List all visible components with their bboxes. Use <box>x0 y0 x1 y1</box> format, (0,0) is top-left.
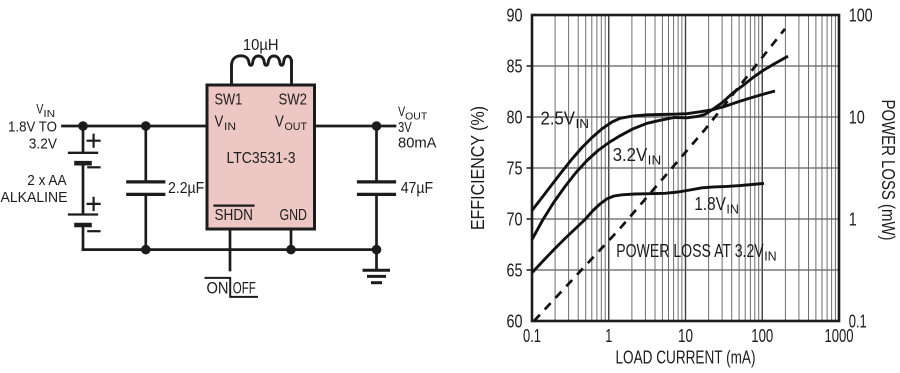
inductor L1 legs <box>232 62 292 86</box>
wire battery drop <box>82 126 85 152</box>
chart decade vertical gridlines <box>609 15 763 321</box>
wire GND pin <box>290 229 293 250</box>
svg-text:47µF: 47µF <box>401 180 434 197</box>
wire between cells <box>82 165 85 215</box>
battery cell1 minus sign <box>88 166 99 168</box>
curve efficiency 1.8VIN <box>532 183 764 272</box>
svg-text:85: 85 <box>507 56 523 77</box>
curve power loss dashed 3.2VIN <box>534 29 785 321</box>
junction C2-top <box>372 121 382 131</box>
svg-text:1.8V: 1.8V <box>694 194 726 214</box>
svg-text:IN: IN <box>764 249 777 264</box>
svg-text:EFFICIENCY (%): EFFICIENCY (%) <box>467 106 488 230</box>
wire VIN rail (top) <box>63 125 208 128</box>
svg-text:10: 10 <box>849 107 865 128</box>
svg-text:75: 75 <box>507 158 523 179</box>
wire VOUT <box>315 125 396 128</box>
battery label <box>1 172 68 206</box>
svg-text:100: 100 <box>849 5 873 26</box>
y axis left tick labels <box>507 5 523 332</box>
svg-text:70: 70 <box>507 209 523 230</box>
svg-text:1000: 1000 <box>825 325 854 346</box>
svg-text:IN: IN <box>576 116 590 131</box>
svg-text:100: 100 <box>751 325 773 346</box>
wire SHDN pin to ON/OFF <box>229 229 232 270</box>
svg-text:90: 90 <box>507 5 523 26</box>
svg-text:2.2µF: 2.2µF <box>168 180 204 197</box>
svg-text:V: V <box>275 114 284 131</box>
junction C2-bottom <box>372 245 382 255</box>
svg-text:1: 1 <box>849 209 857 230</box>
x axis tick labels <box>523 325 854 346</box>
IC pin label VOUT <box>275 114 307 133</box>
svg-text:GND: GND <box>280 207 308 224</box>
svg-text:3V: 3V <box>398 119 412 136</box>
curve efficiency 3.2VIN <box>532 56 788 239</box>
capacitor C2 wires <box>375 126 378 250</box>
svg-text:OUT: OUT <box>285 121 308 133</box>
svg-text:LOAD CURRENT (mA): LOAD CURRENT (mA) <box>616 347 756 368</box>
battery BT1 2xAA cell 1 <box>69 153 97 163</box>
wire battery to ground rail <box>82 227 85 250</box>
svg-text:80: 80 <box>507 107 523 128</box>
svg-text:SW2: SW2 <box>279 92 308 109</box>
junction battery-top <box>78 121 88 131</box>
battery cell1 plus sign <box>88 135 100 147</box>
svg-text:2 x AA: 2 x AA <box>27 172 66 189</box>
svg-text:65: 65 <box>507 260 523 281</box>
wire bottom rail <box>83 248 377 251</box>
chart axis tick stubs left <box>527 66 533 270</box>
capacitor C1 2.2uF plates <box>128 182 164 195</box>
curve label 3.2VIN <box>613 145 662 168</box>
svg-text:IN: IN <box>726 202 739 217</box>
junction C1-top <box>141 121 151 131</box>
svg-text:LTC3531-3: LTC3531-3 <box>227 150 296 167</box>
svg-text:0.1: 0.1 <box>523 325 541 346</box>
svg-text:10µH: 10µH <box>243 37 279 54</box>
chart plot border <box>532 15 839 321</box>
ground symbol <box>364 250 389 283</box>
svg-text:1.8V TO: 1.8V TO <box>8 118 57 135</box>
battery BT1 cell 2 <box>69 215 97 226</box>
op IC U1 LTC3531-3 body <box>207 85 315 229</box>
battery cell2 plus sign <box>88 198 100 210</box>
curve efficiency 2.5VIN <box>532 91 775 211</box>
node VOUT label <box>398 103 437 151</box>
svg-text:ON: ON <box>207 280 229 298</box>
svg-text:IN: IN <box>648 153 662 168</box>
chart minor vertical gridlines <box>555 15 835 321</box>
node VIN label <box>8 100 57 152</box>
curve label POWER LOSS AT 3.2VIN <box>616 241 777 264</box>
svg-text:POWER LOSS (mW): POWER LOSS (mW) <box>878 100 899 241</box>
svg-text:80mA: 80mA <box>398 134 437 151</box>
svg-text:3.2V: 3.2V <box>29 136 57 153</box>
svg-text:10: 10 <box>678 325 693 346</box>
svg-text:SHDN: SHDN <box>215 207 254 224</box>
curve label 1.8VIN <box>694 194 739 217</box>
IC pin label VIN <box>215 114 237 133</box>
battery cell2 minus sign <box>88 230 99 232</box>
svg-text:IN: IN <box>224 121 236 133</box>
svg-text:60: 60 <box>507 311 523 332</box>
svg-text:POWER LOSS AT 3.2V: POWER LOSS AT 3.2V <box>616 241 764 261</box>
svg-text:ALKALINE: ALKALINE <box>1 189 68 206</box>
svg-text:V: V <box>215 114 224 131</box>
inductor L1 coil <box>232 56 292 66</box>
svg-text:1: 1 <box>605 325 612 346</box>
chart horizontal gridlines <box>532 66 839 270</box>
capacitor C1 wires <box>144 126 147 250</box>
IC pin label SHDN with overline <box>215 206 254 225</box>
junction C1-bottom <box>141 245 151 255</box>
svg-text:SW1: SW1 <box>215 92 243 109</box>
curve label 2.5VIN <box>541 109 590 132</box>
svg-text:3.2V: 3.2V <box>613 145 648 165</box>
capacitor C2 47uF plates <box>359 182 395 195</box>
svg-text:OFF: OFF <box>233 280 256 298</box>
svg-text:2.5V: 2.5V <box>541 109 576 129</box>
node ON/OFF label <box>206 278 258 298</box>
y axis right tick labels <box>849 5 873 332</box>
junction GND-pin-rail <box>286 245 296 255</box>
